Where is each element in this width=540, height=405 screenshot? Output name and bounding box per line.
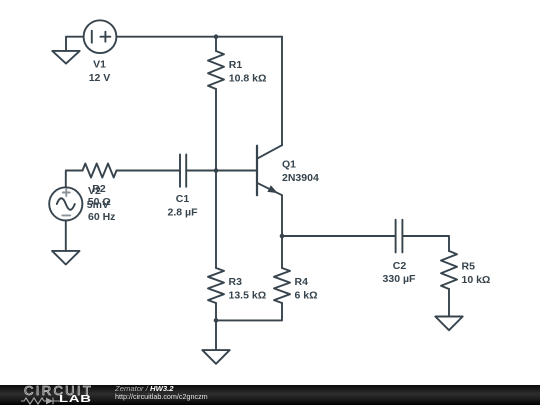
- svg-text:R3: R3: [229, 276, 243, 288]
- label V1 value: [89, 59, 111, 85]
- svg-text:R5: R5: [462, 261, 476, 273]
- node base / R1 / R3 junction: [214, 168, 219, 173]
- wire top rail V1+ to collector corner: [116, 36, 282, 38]
- label V2 value: [87, 185, 116, 223]
- wire V2 top to R2: [66, 171, 83, 188]
- svg-text:60 Hz: 60 Hz: [88, 211, 115, 223]
- svg-text:5mV: 5mV: [87, 199, 109, 211]
- capacitor C1: [180, 154, 186, 186]
- label R5 value: [462, 261, 491, 287]
- ground (under V1): [52, 51, 79, 64]
- wire V2 bottom to ground: [65, 221, 67, 251]
- wire top rail to R1: [215, 37, 217, 51]
- svg-text:330 µF: 330 µF: [383, 273, 416, 285]
- svg-text:2N3904: 2N3904: [282, 172, 319, 184]
- wire R5 bottom to ground: [448, 289, 450, 317]
- node top rail / R1 junction: [214, 34, 219, 39]
- svg-text:12 V: 12 V: [89, 72, 111, 84]
- capacitor C2: [396, 220, 403, 253]
- label C1 value: [168, 193, 199, 219]
- label Q1 value: [282, 159, 319, 185]
- label R2 value: [88, 183, 111, 208]
- svg-text:C2: C2: [393, 260, 407, 272]
- resistor R4: [274, 268, 290, 303]
- svg-text:C1: C1: [176, 193, 190, 205]
- wire collector drop: [281, 37, 283, 146]
- CircuitLab logo wordmark CIRCUIT: [24, 384, 93, 397]
- wire R3 top: [215, 171, 217, 269]
- wire R4 bottom to R3 bottom: [216, 303, 282, 320]
- svg-text:10 kΩ: 10 kΩ: [462, 274, 491, 286]
- label R1 value: [229, 59, 267, 85]
- ground (under V2): [52, 251, 79, 265]
- wire C2 to R5: [402, 236, 449, 251]
- svg-text:R4: R4: [295, 276, 309, 288]
- footer title text: [115, 385, 174, 393]
- wire R2 to C1: [117, 170, 181, 172]
- label R4 value: [295, 276, 318, 302]
- resistor R3: [208, 268, 224, 303]
- ground (under R3): [202, 350, 229, 364]
- resistor R5: [441, 251, 457, 289]
- svg-text:13.5 kΩ: 13.5 kΩ: [229, 290, 267, 302]
- wire C1 to base: [186, 170, 257, 172]
- svg-text:V2: V2: [88, 185, 101, 197]
- wire emitter node to C2: [282, 235, 396, 237]
- svg-text:2.8 µF: 2.8 µF: [168, 207, 199, 219]
- transistor Q1: [257, 145, 282, 195]
- wire emitter drop: [281, 195, 283, 236]
- svg-text:6 kΩ: 6 kΩ: [295, 290, 318, 302]
- wire V1 negative to ground: [66, 37, 84, 51]
- svg-text:V1: V1: [93, 59, 106, 71]
- node R3/R4 bottom junction: [214, 318, 219, 323]
- wire R1 bottom to base node: [215, 89, 217, 171]
- ground (under R5): [435, 317, 462, 331]
- resistor R1: [208, 51, 224, 89]
- CircuitLab logo wordmark LAB: [59, 395, 92, 405]
- wire bottom node to ground: [215, 320, 217, 350]
- svg-text:R1: R1: [229, 59, 243, 71]
- node emitter / R4 / C2 junction: [280, 234, 285, 239]
- label C2 value: [383, 260, 416, 285]
- voltage source V1: [84, 20, 117, 53]
- resistor R2: [83, 164, 117, 178]
- svg-text:10.8 kΩ: 10.8 kΩ: [229, 73, 267, 85]
- label R3 value: [229, 276, 267, 302]
- footer url text: [115, 393, 208, 400]
- wire R4 top: [281, 236, 283, 268]
- wire R3 bottom: [215, 303, 217, 320]
- svg-text:Q1: Q1: [282, 159, 296, 171]
- CircuitLab logo resistor-diode glyph: [20, 396, 62, 405]
- footer bar: [0, 385, 540, 405]
- voltage source V2 (AC): [49, 187, 82, 220]
